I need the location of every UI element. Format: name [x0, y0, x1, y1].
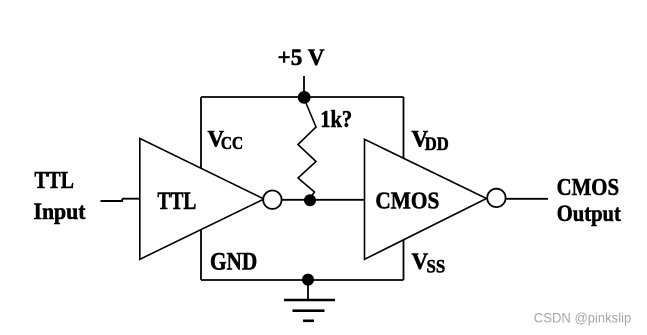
node: junction dot at ground rail	[302, 274, 314, 286]
svg-text:Output: Output	[557, 201, 621, 227]
svg-text:1k?: 1k?	[320, 107, 352, 133]
wire: TTL input lead	[101, 199, 140, 202]
svg-text:TTL: TTL	[157, 188, 196, 215]
node: junction dot at +5V rail	[298, 91, 311, 104]
wire: CMOS output lead	[507, 198, 549, 200]
wire: top supply rail	[201, 96, 404, 98]
ground	[284, 280, 335, 321]
svg-text:GND: GND	[210, 249, 257, 276]
wire: left rail (Vcc/GND side)	[200, 97, 202, 280]
op-amp U1 TTL inverter triangle	[140, 138, 264, 259]
svg-text:CMOS: CMOS	[557, 174, 620, 201]
wire: +5V stub	[303, 76, 305, 97]
wire: right rail (Vdd/Vss side)	[403, 97, 405, 280]
svg-text:+5 V: +5 V	[278, 45, 325, 71]
svg-text:CSDN @pinkslip: CSDN @pinkslip	[534, 310, 632, 326]
svg-text:CMOS: CMOS	[375, 187, 439, 214]
bubble: TTL inverter output circle	[263, 191, 281, 209]
svg-text:TTL: TTL	[34, 168, 74, 194]
resistor R1 pullup zigzag	[298, 99, 316, 198]
svg-text:CC: CC	[221, 133, 243, 153]
wire: TTL output to CMOS input	[283, 199, 365, 201]
svg-text:Input: Input	[34, 199, 86, 225]
node: junction dot at TTL output / resistor	[304, 194, 316, 206]
op-amp U2 CMOS inverter triangle	[365, 139, 487, 259]
bubble: CMOS inverter output circle	[487, 189, 505, 207]
svg-text:SS: SS	[427, 257, 446, 278]
wire: bottom ground rail	[201, 279, 404, 281]
svg-text:DD: DD	[425, 134, 449, 155]
